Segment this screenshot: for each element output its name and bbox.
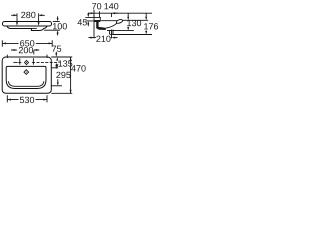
- side view section back wall (dark): [96, 22, 98, 28]
- dimension 200: [11, 49, 39, 51]
- side view front tip bullnose: [116, 19, 122, 23]
- side view wall line: [93, 10, 95, 39]
- plan top extension line: [51, 56, 72, 58]
- extension ticks down to deck: [94, 15, 100, 17]
- label 295: [56, 72, 70, 78]
- rim extension line right: [123, 19, 149, 21]
- side view rim line: [100, 20, 117, 22]
- bowl bottom extension line: [52, 85, 63, 87]
- front view bowl underside: [7, 26, 47, 31]
- label 140: [104, 3, 118, 9]
- dimension 70/140 line: [88, 12, 93, 14]
- dimension 650: [2, 40, 52, 47]
- label 70: [92, 3, 101, 9]
- dimension 530: [7, 95, 47, 102]
- dimension 295 arrow: [57, 79, 59, 82]
- plan view outer rim: [2, 57, 51, 93]
- front view drain recess line: [31, 27, 36, 29]
- plan tap marks: [18, 58, 21, 64]
- plan view drain: [24, 70, 29, 75]
- side view section bottom foot (dark): [96, 27, 106, 30]
- label 176: [144, 23, 158, 29]
- bowl top extension line: [52, 67, 59, 69]
- dimension 176 arrows: [145, 13, 147, 17]
- front view rim slab: [3, 22, 52, 27]
- label 210: [96, 36, 110, 42]
- plan bottom extension line: [51, 92, 72, 94]
- label 130: [127, 20, 141, 26]
- label 530: [20, 97, 34, 103]
- bowl bottom extension line: [107, 30, 134, 32]
- dimension 280 line: [11, 14, 45, 16]
- plan view bowl inner bottom contour: [8, 81, 44, 86]
- side view drain stub: [110, 30, 113, 35]
- dimension 135 arrows: [56, 57, 58, 60]
- side view section rim bar (dark): [94, 20, 101, 22]
- dimension 280 extension arrows down to rim: [17, 17, 39, 22]
- label 100: [53, 23, 67, 29]
- label 135: [58, 60, 72, 66]
- dimension 210: [88, 37, 93, 39]
- dimension 470: [70, 57, 72, 93]
- dimension 75: [55, 52, 57, 54]
- label 280: [21, 12, 35, 18]
- label 470: [71, 65, 85, 71]
- plan tap centreline (dash): [37, 62, 60, 64]
- dimension 100 (front view height): [53, 21, 60, 23]
- plan view inner bowl: [6, 66, 46, 88]
- dimension 130 arrows: [127, 13, 129, 17]
- plan top edge ticks: [7, 55, 47, 58]
- dimension 45: [85, 17, 93, 21]
- label 45: [78, 19, 87, 25]
- label 75: [52, 46, 61, 52]
- label 650: [20, 40, 34, 46]
- drain centre extension line: [111, 13, 113, 38]
- stub bottom extension line: [113, 34, 152, 36]
- side view bowl underside curve to front tip: [106, 23, 117, 28]
- side view tap deck top: [94, 17, 100, 20]
- label 200: [19, 47, 33, 53]
